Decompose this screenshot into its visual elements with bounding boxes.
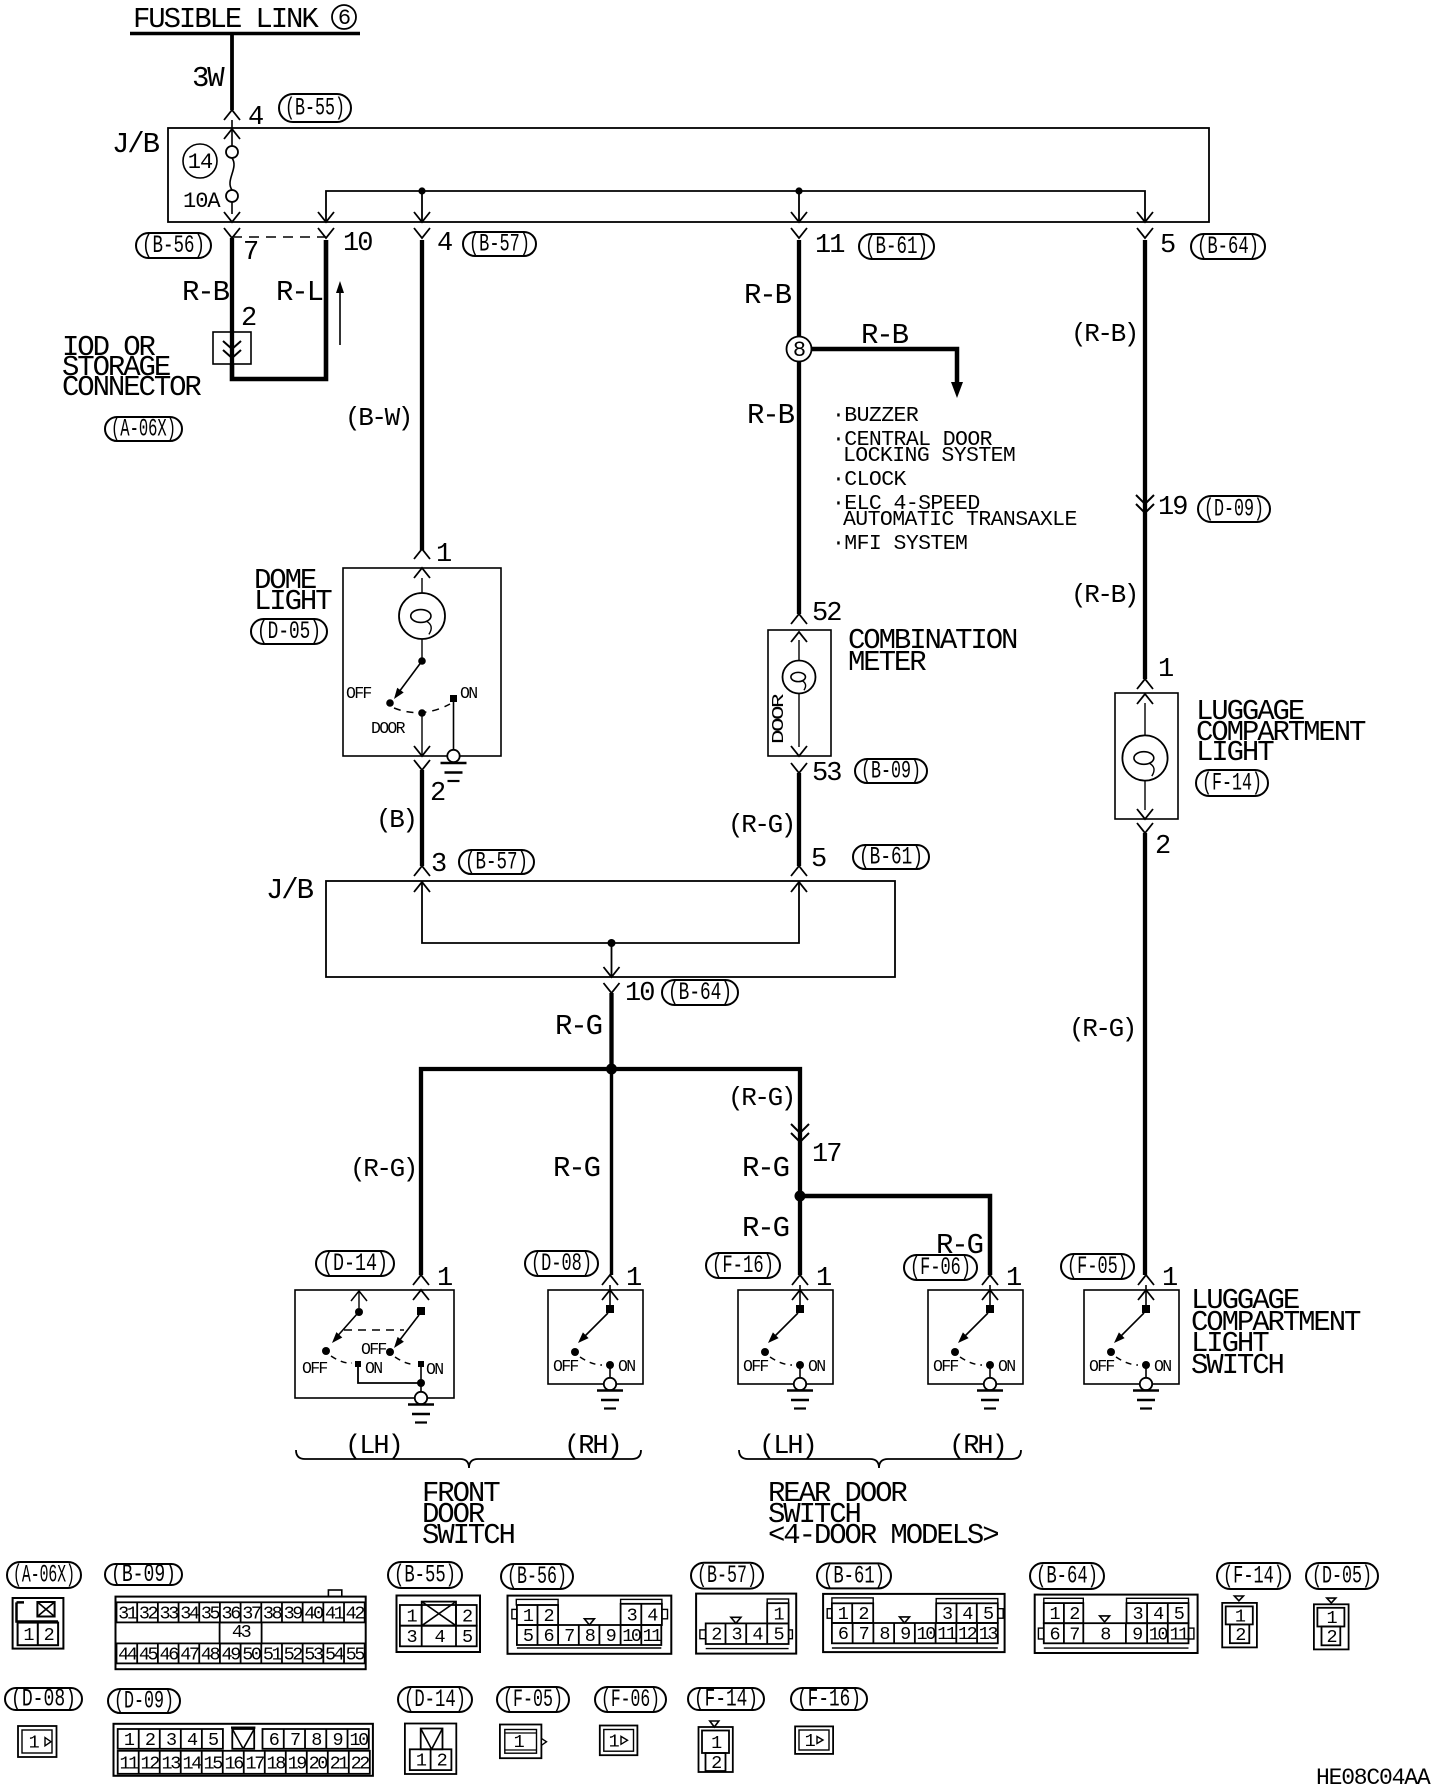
rear door switch brace (739, 1450, 1021, 1468)
svg-text:R-G: R-G (553, 1152, 600, 1185)
rear door switch RH F-06 (928, 1285, 1023, 1384)
connector D-14 pinout label (strip) (398, 1685, 472, 1714)
svg-text:(R-B): (R-B) (1071, 319, 1137, 349)
svg-text:5: 5 (462, 1627, 472, 1648)
dashed link B-56 pin7 to pin10 (232, 236, 326, 238)
front door switch RH D-08 entry arrows pin 1 (602, 1264, 641, 1300)
svg-text:(B-64): (B-64) (668, 978, 732, 1007)
rear door switch LH F-16 ground terminal (794, 1378, 806, 1390)
luggage compartment light switch F-05 (1084, 1285, 1179, 1384)
connector D-08 pinout (18, 1726, 57, 1757)
svg-text:J/B: J/B (266, 874, 314, 907)
combination meter pin 52 arrows (791, 599, 841, 642)
rear door switch RH F-06 ground terminal (984, 1378, 996, 1390)
svg-text:2: 2 (145, 1730, 155, 1751)
svg-text:(B-61): (B-61) (859, 843, 923, 872)
lower J/B internal bus (422, 882, 799, 977)
connector B-61 label (top) (859, 232, 934, 261)
svg-text:(B-61): (B-61) (865, 232, 928, 261)
svg-text:51: 51 (263, 1644, 283, 1665)
lower junction block J/B box (266, 874, 895, 977)
connector B-61 label (lower) (853, 843, 929, 872)
connector B-57 label (lower) (459, 848, 534, 877)
svg-text:(D-09): (D-09) (114, 1687, 174, 1716)
connector F-06 pinout (600, 1726, 638, 1756)
svg-text:(D-08): (D-08) (531, 1249, 592, 1278)
svg-text:3W: 3W (192, 62, 225, 95)
wire R-B to IOD connector (182, 238, 256, 334)
front door switch RH D-08 (548, 1285, 643, 1384)
connector B-64 pinout (1035, 1595, 1198, 1653)
svg-text:8: 8 (311, 1730, 321, 1751)
fusible link 6 label (130, 3, 360, 36)
svg-text:6: 6 (543, 1626, 553, 1647)
svg-text:7: 7 (859, 1624, 869, 1645)
connector B-64 label (top) (1191, 232, 1265, 261)
connector A-06X pinout (13, 1598, 64, 1649)
front door switch caption (422, 1477, 515, 1552)
svg-text:41: 41 (325, 1603, 345, 1624)
connector B-61 pin 5 arrows (791, 845, 826, 892)
svg-text:CONNECTOR: CONNECTOR (62, 371, 201, 404)
wire R-G main feed (555, 993, 612, 1069)
svg-text:FUSIBLE LINK: FUSIBLE LINK (133, 3, 319, 36)
junction node on bus at B-61 branch (795, 187, 802, 194)
wire R-G to front door switch RH (553, 1069, 612, 1275)
ground (dome light) (441, 763, 467, 781)
svg-text:OFF: OFF (346, 684, 371, 703)
svg-text:5: 5 (774, 1625, 784, 1646)
wire R-G combination meter to J/B (728, 773, 799, 866)
svg-text:LIGHT: LIGHT (1196, 736, 1274, 769)
svg-text:48: 48 (201, 1644, 220, 1665)
svg-text:(LH): (LH) (345, 1432, 402, 1462)
svg-text:3: 3 (166, 1730, 176, 1751)
svg-text:2: 2 (1069, 1604, 1079, 1625)
wire R-G to rear door switches (612, 1069, 801, 1195)
D-14 dome light pole (361, 1307, 443, 1391)
svg-text:(D-05): (D-05) (1312, 1562, 1372, 1591)
svg-text:(B-57): (B-57) (465, 848, 528, 877)
svg-text:(F-06): (F-06) (601, 1685, 660, 1714)
svg-text:34: 34 (180, 1603, 200, 1624)
svg-text:ON: ON (426, 1360, 443, 1379)
rear door switch RH F-06 entry arrows pin 1 (982, 1264, 1021, 1300)
svg-text:R-B: R-B (182, 276, 230, 309)
svg-text:(R-G): (R-G) (728, 810, 794, 840)
svg-text:10: 10 (1149, 1624, 1168, 1645)
svg-text:2: 2 (543, 1606, 553, 1627)
connector F-05 label (1061, 1252, 1134, 1281)
svg-text:(D-09): (D-09) (1204, 495, 1264, 524)
connector D-09 label (wire) (1198, 495, 1270, 524)
svg-text:1: 1 (436, 540, 451, 570)
svg-text:9: 9 (606, 1626, 616, 1647)
rear door switch LH F-16 (738, 1285, 833, 1384)
luggage compartment light F-14 (1115, 693, 1366, 819)
svg-text:(F-14): (F-14) (694, 1685, 758, 1714)
svg-text:DOOR: DOOR (371, 719, 406, 738)
svg-text:11: 11 (643, 1626, 663, 1647)
svg-text:7: 7 (564, 1626, 574, 1647)
svg-text:7: 7 (290, 1730, 300, 1751)
svg-text:5: 5 (811, 845, 826, 875)
wire R-G to front door switch LH (350, 1069, 612, 1275)
wire B dome light to J/B (376, 770, 422, 866)
svg-text:6: 6 (269, 1730, 279, 1751)
connector D-09 pin 19 pass-through arrows (1136, 493, 1187, 523)
svg-text:8: 8 (1100, 1624, 1110, 1645)
connector F-16 pinout label (strip) (791, 1685, 867, 1714)
svg-text:(F-16): (F-16) (797, 1685, 861, 1714)
svg-text:10: 10 (917, 1624, 936, 1645)
svg-text:R-G: R-G (742, 1152, 789, 1185)
svg-text:1: 1 (1158, 655, 1173, 685)
svg-text:OFF: OFF (361, 1340, 386, 1359)
svg-text:12: 12 (958, 1624, 977, 1645)
connector F-16 label (706, 1251, 780, 1280)
connector B-56 pinout label (strip) (501, 1562, 573, 1591)
svg-text:2: 2 (462, 1606, 472, 1627)
wire R-G to rear door switch LH (742, 1196, 800, 1275)
svg-text:(F-05): (F-05) (503, 1685, 563, 1714)
svg-text:46: 46 (160, 1644, 179, 1665)
svg-text:2: 2 (241, 304, 256, 334)
connector F-06 label (904, 1253, 977, 1282)
svg-text:4: 4 (437, 229, 452, 259)
connector B-56 pinout (508, 1596, 672, 1654)
connector B-57 pin 4 exit arrows (414, 212, 452, 259)
connector A-06X label (105, 415, 182, 444)
front door switch LH D-14 (295, 1290, 454, 1398)
svg-text:R-G: R-G (742, 1212, 789, 1245)
svg-text:5: 5 (208, 1730, 218, 1751)
svg-text:·MFI SYSTEM: ·MFI SYSTEM (832, 532, 967, 556)
svg-text:11: 11 (120, 1753, 140, 1774)
connector F-14 pinout label (strip row2) (688, 1685, 764, 1714)
svg-text:52: 52 (812, 599, 841, 629)
svg-text:ON: ON (1154, 1357, 1171, 1376)
connector B-64 pin 5 exit arrows (1137, 212, 1175, 261)
svg-text:2: 2 (430, 779, 445, 809)
svg-text:11: 11 (1169, 1624, 1189, 1645)
svg-text:(F-14): (F-14) (1223, 1562, 1284, 1591)
svg-text:(LH): (LH) (759, 1432, 816, 1462)
svg-text:19: 19 (1158, 493, 1187, 523)
connector B-09 label (855, 757, 927, 786)
svg-text:3: 3 (627, 1605, 637, 1626)
connector B-56 pin 7 exit arrows (224, 212, 258, 268)
svg-text:R-B: R-B (744, 279, 792, 312)
svg-text:3: 3 (1132, 1604, 1142, 1625)
svg-text:19: 19 (288, 1753, 307, 1774)
svg-text:53: 53 (812, 759, 841, 789)
svg-text:5: 5 (1160, 231, 1175, 261)
connector B-61 pin 11 exit arrows (791, 212, 844, 261)
rear door switch LH F-16 entry arrows pin 1 (792, 1264, 831, 1300)
front door switch brace (296, 1450, 641, 1468)
connector B-64 label (lower) (662, 978, 738, 1007)
junction node rear door splice (795, 1191, 806, 1202)
ground (rear door switch LH F-16) (787, 1391, 813, 1409)
svg-text:18: 18 (267, 1753, 286, 1774)
D-14 ground terminal (415, 1392, 427, 1404)
combination meter (768, 624, 1017, 756)
svg-text:OFF: OFF (933, 1357, 958, 1376)
svg-text:OFF: OFF (553, 1357, 578, 1376)
svg-text:6: 6 (838, 1624, 848, 1645)
svg-text:ON: ON (460, 684, 477, 703)
branch destination list (832, 404, 1077, 556)
connector A-06X label (strip) (7, 1561, 81, 1590)
svg-text:33: 33 (160, 1603, 179, 1624)
junction node on bus at B-57 branch (418, 187, 425, 194)
svg-text:(D-08): (D-08) (11, 1685, 76, 1714)
svg-text:31: 31 (118, 1603, 138, 1624)
svg-text:(F-06): (F-06) (910, 1253, 971, 1282)
front door switch RH D-08 ground terminal (604, 1378, 616, 1390)
svg-text:(A-06X): (A-06X) (13, 1561, 75, 1590)
svg-text:R-G: R-G (555, 1010, 602, 1043)
svg-text:10: 10 (625, 979, 654, 1009)
svg-text:45: 45 (139, 1644, 158, 1665)
svg-text:49: 49 (222, 1644, 241, 1665)
svg-text:6: 6 (338, 6, 350, 31)
connector B-55 pinout label (strip) (388, 1561, 462, 1590)
svg-text:<4-DOOR MODELS>: <4-DOOR MODELS> (768, 1519, 998, 1552)
connector B-57 pin 3 arrows (414, 850, 446, 892)
svg-text:(F-14): (F-14) (1202, 769, 1262, 798)
svg-text:SWITCH: SWITCH (422, 1519, 515, 1552)
svg-text:3: 3 (942, 1604, 952, 1625)
svg-text:ON: ON (365, 1359, 382, 1378)
luggage compartment light switch F-05 entry arrows pin 1 (1138, 1264, 1177, 1300)
svg-text:32: 32 (139, 1603, 158, 1624)
svg-text:44: 44 (118, 1644, 138, 1665)
connector D-14 pinout (405, 1724, 456, 1775)
connector B-57 pinout (696, 1594, 796, 1654)
node 8 junction (787, 337, 812, 364)
svg-text:(F-16): (F-16) (712, 1251, 774, 1280)
svg-text:R-L: R-L (276, 276, 323, 309)
svg-text:43: 43 (232, 1622, 251, 1643)
svg-text:11: 11 (815, 231, 844, 261)
svg-text:(R-B): (R-B) (1071, 580, 1137, 610)
ground (luggage compartment light switch F-05) (1133, 1391, 1159, 1409)
svg-text:(A-06X): (A-06X) (111, 415, 176, 444)
dome light lamp (399, 578, 445, 661)
ground (D-14) (408, 1405, 434, 1423)
connector F-06 pinout label (strip) (595, 1685, 666, 1714)
luggage compartment light switch F-05 ground terminal (1140, 1378, 1152, 1390)
svg-text:16: 16 (225, 1753, 244, 1774)
svg-text:22: 22 (351, 1753, 370, 1774)
connector D-14 label (316, 1249, 394, 1278)
connector B-57 label (top) (463, 230, 536, 259)
connector B-57 pinout label (strip) (691, 1561, 763, 1590)
J/B exit arrows pin 10 (318, 212, 372, 259)
svg-text:39: 39 (284, 1603, 303, 1624)
svg-text:5: 5 (523, 1626, 533, 1647)
svg-text:OFF: OFF (1089, 1357, 1114, 1376)
svg-text:J/B: J/B (112, 128, 160, 161)
svg-text:(B-57): (B-57) (469, 230, 530, 259)
connector F-05 pinout label (strip) (497, 1685, 569, 1714)
svg-text:10: 10 (622, 1626, 641, 1647)
svg-text:(F-05): (F-05) (1067, 1252, 1128, 1281)
svg-text:LOCKING SYSTEM: LOCKING SYSTEM (843, 444, 1015, 468)
D-14 buzzer pole (302, 1291, 421, 1383)
wire R-G luggage light to switch (1069, 833, 1145, 1275)
luggage compartment light switch name (1191, 1284, 1361, 1382)
wire R-G to rear door switch RH (800, 1196, 990, 1275)
svg-text:AUTOMATIC TRANSAXLE: AUTOMATIC TRANSAXLE (843, 508, 1077, 532)
svg-text:55: 55 (346, 1644, 365, 1665)
svg-text:11: 11 (937, 1624, 957, 1645)
svg-text:53: 53 (304, 1644, 323, 1665)
svg-text:(B-09): (B-09) (111, 1560, 176, 1589)
connector B-56 label (136, 231, 211, 260)
svg-text:42: 42 (346, 1603, 365, 1624)
svg-text:15: 15 (204, 1753, 223, 1774)
svg-text:(RH): (RH) (564, 1432, 621, 1462)
svg-text:13: 13 (979, 1624, 998, 1645)
svg-text:6: 6 (1049, 1624, 1059, 1645)
svg-text:3: 3 (406, 1627, 416, 1648)
svg-text:(B-64): (B-64) (1036, 1562, 1098, 1591)
connector D-08 pinout label (strip) (5, 1685, 82, 1714)
junction node R-G splice (606, 1064, 617, 1075)
connector B-55 label (279, 94, 351, 123)
connector B-55 pinout (397, 1596, 481, 1653)
ground (rear door switch RH F-06) (977, 1391, 1003, 1409)
svg-text:2: 2 (44, 1625, 54, 1646)
D-14 gang dashed link (344, 1329, 404, 1331)
svg-text:(B-61): (B-61) (823, 1561, 885, 1590)
svg-text:2: 2 (1155, 832, 1170, 862)
svg-text:(B-64): (B-64) (1197, 232, 1259, 261)
svg-text:(B-57): (B-57) (697, 1561, 757, 1590)
svg-text:9: 9 (1132, 1624, 1142, 1645)
luggage compartment light pin 1 arrows (1137, 655, 1173, 704)
svg-text:9: 9 (333, 1730, 343, 1751)
svg-text:10A: 10A (183, 189, 221, 214)
svg-text:·BUZZER: ·BUZZER (832, 404, 919, 428)
connector F-16 pinout (795, 1726, 833, 1754)
luggage compartment light pin 2 exit arrows (1137, 809, 1170, 862)
svg-text:40: 40 (304, 1603, 323, 1624)
svg-text:R-B: R-B (747, 399, 795, 432)
svg-text:HE08C04AA: HE08C04AA (1316, 1765, 1431, 1788)
svg-text:(R-G): (R-G) (1069, 1014, 1135, 1044)
connector B-61 pinout label (strip) (817, 1561, 891, 1590)
J/B internal bus wire (326, 191, 1145, 222)
svg-text:(B-56): (B-56) (507, 1562, 567, 1591)
wire R-B to luggage compartment light (1071, 240, 1145, 679)
connector B-09 pinout (116, 1590, 366, 1669)
svg-text:47: 47 (180, 1644, 199, 1665)
wire R-B branch to other systems (812, 319, 964, 398)
svg-text:38: 38 (263, 1603, 282, 1624)
svg-text:9: 9 (900, 1624, 910, 1645)
junction node lower J/B bus (608, 939, 616, 947)
svg-text:(B): (B) (376, 805, 416, 835)
connector D-09 pinout (114, 1724, 373, 1776)
svg-text:OFF: OFF (743, 1357, 768, 1376)
svg-text:8: 8 (585, 1626, 595, 1647)
svg-text:2: 2 (1235, 1625, 1245, 1646)
svg-text:21: 21 (330, 1753, 350, 1774)
svg-text:ON: ON (808, 1357, 825, 1376)
svg-text:12: 12 (141, 1753, 160, 1774)
connector B-64 pinout label (strip) (1030, 1562, 1104, 1591)
IOD or storage connector A-06X (62, 331, 251, 404)
svg-text:(D-05): (D-05) (257, 617, 321, 646)
connector B-09 label (strip) (105, 1560, 182, 1589)
connector D-05 label (251, 617, 327, 646)
svg-text:8: 8 (793, 338, 805, 363)
svg-text:13: 13 (162, 1753, 181, 1774)
wire B-W to dome light (345, 240, 422, 550)
svg-text:(R-G): (R-G) (728, 1083, 794, 1113)
connector D-09 pinout label (strip) (108, 1687, 180, 1716)
svg-text:ON: ON (618, 1357, 635, 1376)
svg-text:DOOR: DOOR (769, 693, 788, 744)
front door switch LH D-14 entry arrows pin 1 (413, 1264, 452, 1300)
svg-text:54: 54 (325, 1644, 345, 1665)
rear door switch caption (768, 1477, 998, 1552)
connector B-64 pin 10 exit arrows (604, 967, 655, 1009)
svg-text:SWITCH: SWITCH (1191, 1349, 1284, 1382)
front door switch group labels (345, 1432, 621, 1462)
svg-text:3: 3 (731, 1625, 741, 1646)
svg-text:(B-55): (B-55) (394, 1561, 456, 1590)
wire R-L loop back to J/B (232, 240, 344, 379)
dome light D-05 pin 1 arrows (414, 540, 451, 578)
svg-text:10: 10 (349, 1730, 368, 1751)
svg-text:2: 2 (1327, 1627, 1337, 1648)
svg-text:17: 17 (812, 1140, 841, 1170)
svg-text:(D-14): (D-14) (404, 1685, 466, 1714)
svg-text:52: 52 (284, 1644, 303, 1665)
svg-text:20: 20 (309, 1753, 328, 1774)
connector F-14 label (1196, 769, 1268, 798)
svg-text:(B-56): (B-56) (142, 231, 205, 260)
svg-text:2: 2 (711, 1625, 721, 1646)
svg-text:14: 14 (183, 1753, 203, 1774)
connector F-14 pinout (1222, 1596, 1257, 1647)
svg-text:(B-55): (B-55) (285, 94, 345, 123)
connector B-55 pin 4 pass-through arrows (224, 103, 263, 146)
combination meter pin 53 exit arrows (791, 746, 841, 789)
svg-text:ON: ON (998, 1357, 1015, 1376)
svg-text:(B-W): (B-W) (345, 403, 411, 433)
svg-text:LIGHT: LIGHT (254, 585, 332, 618)
wire 3W from fusible link (192, 35, 232, 110)
rear door switch group labels (759, 1432, 1006, 1462)
svg-text:17: 17 (246, 1753, 265, 1774)
svg-text:7: 7 (1069, 1624, 1079, 1645)
connector F-14 pinout row2 (699, 1721, 733, 1774)
svg-text:50: 50 (242, 1644, 261, 1665)
svg-text:·CLOCK: ·CLOCK (832, 468, 907, 492)
combination meter door lamp (769, 640, 816, 747)
connector F-05 pinout (500, 1725, 547, 1759)
svg-text:2: 2 (437, 1751, 447, 1772)
dome light pin 2 exit arrows (414, 746, 445, 809)
connector B-61 pinout (823, 1594, 1005, 1652)
svg-text:OFF: OFF (302, 1359, 327, 1378)
